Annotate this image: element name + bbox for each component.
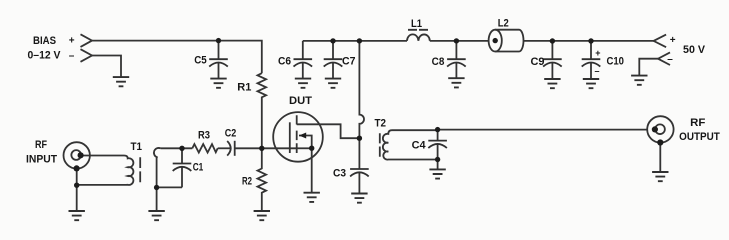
svg-text:–: – — [594, 66, 599, 76]
svg-text:C2: C2 — [225, 128, 237, 140]
svg-text:C10: C10 — [606, 56, 624, 68]
svg-text:0–12 V: 0–12 V — [28, 49, 62, 61]
svg-text:C3: C3 — [333, 168, 346, 180]
svg-text:C9: C9 — [531, 56, 545, 68]
svg-text:C1: C1 — [193, 162, 204, 174]
svg-text:RF: RF — [35, 139, 47, 151]
svg-text:L1: L1 — [411, 18, 422, 30]
svg-text:+: + — [670, 35, 676, 46]
svg-text:C4: C4 — [412, 140, 427, 152]
svg-text:+: + — [595, 48, 600, 58]
svg-text:–: – — [667, 54, 673, 65]
svg-text:C7: C7 — [342, 56, 355, 68]
svg-text:C8: C8 — [432, 56, 445, 68]
svg-text:R3: R3 — [198, 130, 210, 142]
svg-text:T1: T1 — [130, 141, 142, 153]
svg-text:50 V: 50 V — [683, 44, 706, 56]
svg-text:BIAS: BIAS — [33, 35, 56, 47]
svg-text:RF: RF — [690, 117, 705, 129]
svg-text:+: + — [69, 36, 75, 47]
svg-text:C5: C5 — [194, 55, 207, 67]
svg-text:R1: R1 — [237, 82, 251, 94]
svg-text:DUT: DUT — [289, 95, 312, 107]
svg-text:OUTPUT: OUTPUT — [679, 131, 720, 143]
svg-text:C6: C6 — [278, 56, 291, 68]
svg-text:INPUT: INPUT — [26, 154, 57, 166]
svg-text:R2: R2 — [242, 176, 252, 188]
svg-text:–: – — [69, 51, 75, 62]
svg-text:T2: T2 — [374, 118, 386, 130]
svg-text:L2: L2 — [498, 17, 509, 29]
